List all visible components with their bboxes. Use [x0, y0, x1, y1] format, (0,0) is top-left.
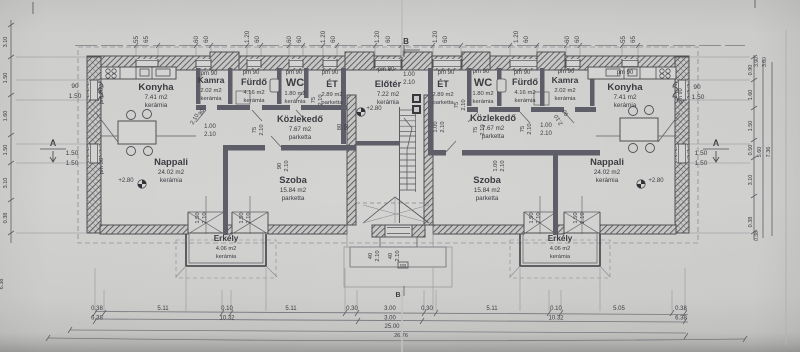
stairwell right wall	[424, 95, 433, 225]
kitchen counter right	[588, 67, 676, 79]
pm 90 labels	[99, 67, 684, 174]
washer right Furdo	[534, 92, 549, 105]
bottom dimension chain row2	[91, 316, 688, 325]
room label Szoba right	[473, 174, 501, 202]
wall Szoba/Nappali right	[553, 150, 558, 235]
right balcony Erkely outline	[510, 234, 610, 278]
wall under right top rooms	[467, 107, 596, 112]
entrance landing	[372, 225, 425, 237]
top dimension chain line	[75, 45, 745, 47]
room label Konyha left	[138, 82, 174, 109]
wall under left top rooms	[196, 105, 347, 110]
bottom witness lines	[95, 268, 685, 311]
partition WC/Furdo right	[497, 68, 502, 106]
partition Eloter/ET right	[428, 68, 433, 150]
top wall	[87, 52, 689, 70]
right outer wall	[675, 57, 689, 233]
partition Konyha/Kamra	[196, 68, 201, 104]
page frame ticks top	[33, 0, 755, 14]
right page dimension chains	[748, 55, 772, 241]
partition ET/WC right	[467, 68, 472, 106]
room label Konyha right	[607, 82, 643, 109]
room label Erkely right	[548, 234, 573, 260]
partition Kamra/Furdo	[228, 68, 233, 104]
stairwell left wall	[347, 95, 356, 225]
side witness lines	[16, 57, 750, 233]
entrance door dim labels	[368, 250, 408, 268]
partition Furdo/WC left	[277, 68, 282, 104]
door dim labels horizontal	[204, 72, 552, 138]
kitchen counter left	[101, 67, 176, 79]
dining table right	[620, 106, 658, 153]
section marker A right	[703, 138, 729, 162]
page total dimension line	[46, 333, 747, 342]
dining table left	[118, 110, 156, 156]
left outer wall	[87, 57, 101, 233]
benchmark +2.80 center	[357, 106, 382, 116]
room label ET left	[321, 79, 343, 106]
partition WC/ET left	[304, 68, 309, 98]
benchmark +2.80 left Nappali	[118, 178, 146, 188]
benchmark +2.80 right Nappali	[637, 178, 664, 188]
bottom wall	[100, 196, 676, 234]
washer left Furdo	[236, 91, 250, 104]
door dim labels rotated	[190, 94, 571, 171]
room label ET right	[432, 79, 454, 106]
paper edge shading right	[785, 30, 787, 345]
wall Kozlekedo/Szoba left	[223, 145, 356, 151]
top rotated dimension labels	[133, 30, 640, 48]
entrance steps	[344, 225, 452, 287]
room label WC right	[472, 77, 494, 105]
left balcony Erkely outline	[176, 234, 277, 278]
kitchen floor edge left	[100, 135, 196, 137]
wall Nappali/Szoba left	[223, 145, 228, 235]
room label Kozlekedo left	[277, 114, 323, 141]
room label Nappali left	[154, 156, 188, 184]
room label Furdo right	[512, 77, 538, 104]
center fold shading	[401, 0, 403, 57]
bottom total dimension line	[68, 324, 688, 339]
door leaf marks	[96, 90, 680, 152]
room label Eloter	[375, 78, 402, 106]
balcony door dim labels	[195, 212, 586, 223]
washbasin right Furdo	[497, 79, 506, 92]
room label WC left	[284, 77, 306, 105]
section marker B bottom	[395, 286, 404, 299]
room label Kamra right	[552, 75, 579, 102]
wall Kozlekedo/Szoba right	[428, 150, 600, 156]
partition Kamra/Konyha right	[590, 68, 595, 106]
top witness lines	[136, 46, 638, 58]
left wall window dims	[66, 83, 82, 167]
washbasin left Furdo	[270, 79, 279, 92]
room label Erkely left	[214, 234, 239, 260]
stair treads	[400, 107, 417, 223]
window swing arcs right wall	[673, 82, 678, 101]
building outer dashed roof-overhang outline	[78, 47, 698, 243]
room label Kozlekedo right	[470, 113, 516, 140]
section marker A left	[40, 138, 66, 162]
entrance canopy triangle	[356, 197, 429, 223]
window swing arcs left wall	[98, 82, 103, 101]
wall Eloter / stair hall	[356, 141, 399, 146]
bottom dimension chain row1	[91, 306, 688, 316]
room label Furdo left	[241, 77, 267, 104]
right wall window dims	[692, 84, 708, 167]
room label Szoba left	[279, 174, 307, 202]
section marker B top	[403, 37, 420, 57]
left page dimension chain	[0, 20, 14, 289]
room label Nappali right	[590, 156, 624, 184]
electric panel boxes	[412, 94, 421, 114]
room label Kamra left	[198, 75, 225, 102]
partition ET left / stair	[341, 68, 346, 144]
partition Furdo/Kamra right	[540, 68, 545, 106]
kitchen floor edge right	[596, 135, 676, 137]
stair up arrow	[404, 118, 412, 190]
